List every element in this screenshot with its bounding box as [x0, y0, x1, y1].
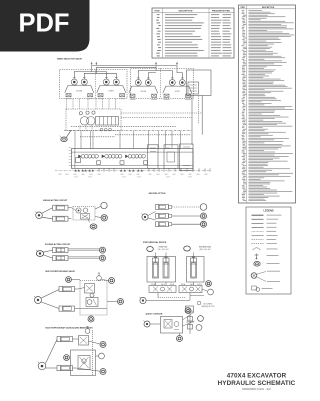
double acting port circle B — [100, 255, 106, 261]
mp1 cylinder lower — [59, 306, 75, 311]
mp2 port circle top right — [100, 342, 106, 348]
legend hose symbol — [253, 248, 260, 250]
second option supply circle — [142, 214, 148, 220]
single acting port circle B — [101, 215, 107, 221]
mp2 gauge circle right — [99, 353, 105, 359]
single acting port circle A — [101, 202, 107, 208]
quick coupler supply circle — [144, 321, 150, 327]
pilot supply bus piping — [92, 65, 177, 67]
svg-text:LEGEND: LEGEND — [264, 210, 274, 213]
main valve outlet ticks — [98, 168, 100, 172]
second option coupler 1 — [156, 205, 169, 210]
svg-text:SOL B: SOL B — [197, 284, 201, 286]
double acting circuit lines to ports — [68, 249, 100, 251]
mp2 inner valve rect — [78, 356, 90, 370]
stay solenoid manifold left — [149, 286, 176, 293]
single acting cylinder upper — [53, 205, 69, 210]
mp1 tank circle bottom — [88, 316, 94, 322]
svg-text:SINGLE ACTING CIRCUIT: SINGLE ACTING CIRCUIT — [43, 199, 68, 202]
mp2 port circle bottom right — [100, 369, 106, 375]
pilot manifold lower ticks — [79, 125, 81, 130]
pilot bus dashed upper — [71, 126, 176, 128]
main valve end cover — [180, 144, 194, 170]
parts list table rows — [242, 9, 244, 12]
dashed interconnect selector to drain — [121, 112, 202, 114]
stay cylinder group left frame — [147, 257, 176, 283]
double acting cylinder upper — [53, 248, 69, 253]
svg-text:DOUBLE ACTING CIRCUIT: DOUBLE ACTING CIRCUIT — [45, 243, 71, 246]
quick coupler valve internals — [164, 320, 172, 329]
svg-text:STICK: STICK — [175, 91, 181, 93]
stay device connecting wires — [157, 293, 159, 298]
svg-text:00000000-0 EN - 2/2: 00000000-0 EN - 2/2 — [242, 387, 271, 391]
rear stay callout bubble right — [184, 246, 191, 251]
main valve left port ticks — [69, 147, 71, 150]
second option coupler 2 — [156, 214, 169, 219]
single acting supply port circle — [36, 212, 43, 219]
pilot bus dashed lower — [115, 134, 190, 136]
stay cylinder right 1 — [191, 258, 197, 278]
single acting wires to ports — [72, 208, 76, 211]
wires from selector valves down to pilot manifold — [66, 99, 68, 109]
mp1 gauge circle top — [66, 277, 72, 283]
mp1 port circle top right — [109, 278, 115, 284]
gauge-to-bus wires right group — [138, 66, 156, 78]
mp1 port circle right — [118, 299, 124, 305]
bus junction marks — [91, 63, 93, 65]
mp2 supply wires — [46, 340, 58, 364]
svg-text:470X4 EXCAVATOR: 470X4 EXCAVATOR — [227, 373, 287, 380]
svg-text:PRESSURE SETTING: PRESSURE SETTING — [212, 10, 231, 12]
legend prime connection symbol — [256, 254, 258, 259]
svg-text:STAY REMOVAL DEVICE: STAY REMOVAL DEVICE — [143, 241, 167, 244]
second option wires — [148, 212, 156, 216]
quick coupler tank circle bottom — [177, 336, 183, 342]
pilot drain dashed pipe — [198, 96, 200, 125]
legend line samples — [252, 214, 264, 216]
PDF thumbnail badge — [0, 0, 90, 52]
bus junction bumps — [100, 128, 103, 131]
stay gauge circle right lower — [208, 289, 214, 295]
quick coupler wires — [150, 323, 161, 325]
pressure settings table column rules — [162, 8, 164, 58]
gauge-to-bus wires left group — [74, 66, 91, 78]
svg-text:SOL B: SOL B — [170, 284, 174, 286]
enclosure divider right — [159, 69, 161, 99]
mp1 supply wires — [41, 290, 59, 299]
stay solenoid manifold right — [179, 286, 202, 293]
mp2 top valve body — [79, 336, 89, 346]
stay cylinder group right frame — [187, 257, 205, 283]
parts list table column rule — [246, 5, 248, 203]
mp1 wires — [78, 288, 85, 290]
svg-text:HYDRAULIC SCHEMATIC: HYDRAULIC SCHEMATIC — [218, 380, 296, 387]
mp2 top valve gauge — [85, 329, 90, 334]
svg-text:MULTI-PURPOSE BDAY VALVE (SLID: MULTI-PURPOSE BDAY VALVE (SLIDING BEAM P… — [46, 326, 93, 329]
quick coupler port circle right 2 — [196, 325, 202, 331]
rear stay callout bubble left — [147, 247, 154, 252]
parts list table frame — [239, 5, 296, 203]
double acting supply wires — [43, 250, 52, 252]
mp2 dashed riser — [92, 330, 94, 375]
double acting supply circle — [36, 251, 43, 257]
double acting cylinder lower — [53, 256, 69, 261]
svg-text:DESCRIPTION: DESCRIPTION — [179, 10, 193, 12]
double acting port circle A — [100, 247, 106, 253]
sway selector dashed enclosure right — [131, 69, 194, 99]
main valve spool 1 — [78, 155, 81, 159]
pilot manifold spool body — [96, 117, 119, 126]
main valve relief section 2 — [164, 145, 178, 169]
return pipe from selector right — [191, 96, 193, 145]
svg-text:(LH) - 004 - 004: (LH) - 004 - 004 — [158, 249, 169, 251]
port id labels under main valve — [59, 173, 62, 176]
legend component item number symbol — [254, 262, 260, 267]
main valve spool 2 — [102, 155, 105, 159]
stay port circle right upper — [206, 281, 212, 287]
pilot valve unit A-TRIM — [71, 79, 77, 85]
single acting supply wires — [42, 208, 53, 214]
mp2 wires — [76, 338, 79, 340]
pilot bus dash-dot with junctions — [64, 129, 192, 131]
mp1 relief valve dashed box — [80, 281, 107, 316]
mp2 cylinder lower — [57, 366, 73, 371]
svg-text:SECOND OPTION: SECOND OPTION — [149, 193, 166, 195]
pilot valve unit BOOM — [135, 80, 141, 86]
main valve outlet port marks group 2 — [120, 169, 122, 171]
mp2 main body rect — [71, 350, 96, 376]
pilot manifold dashed enclosure — [66, 109, 121, 131]
single acting valve gauges — [76, 208, 81, 213]
quick coupler port circle top — [185, 308, 191, 314]
pressure settings table frame — [152, 8, 234, 58]
mp1 relief valve body — [85, 284, 95, 294]
second option port circle 3 — [201, 221, 207, 227]
svg-text:RIGHT: RIGHT — [109, 90, 114, 92]
mp2 supply circle — [38, 362, 46, 370]
mp1 check valve body — [86, 298, 98, 307]
mp1 gauge circle mid — [90, 293, 94, 297]
accumulator block right of selector — [187, 70, 212, 96]
second option coupler 3 — [156, 222, 169, 227]
svg-text:A-TRIM: A-TRIM — [76, 89, 82, 92]
pump to bus wire — [67, 130, 72, 137]
second option port circle 1 (open) — [200, 204, 207, 211]
single acting tank circle — [90, 224, 97, 229]
legend box frame — [246, 207, 291, 294]
main valve spool 3 — [125, 155, 128, 159]
main valve pilot cap box — [76, 158, 81, 163]
spool end caps — [97, 161, 101, 165]
svg-text:MULTI-PURPOSE BDAY VALVE: MULTI-PURPOSE BDAY VALVE — [46, 270, 76, 273]
sway selector dashed enclosure left — [60, 70, 128, 99]
svg-text:(RH) - 004 - 004: (RH) - 004 - 004 — [200, 249, 211, 251]
pilot manifold solenoid circles — [80, 117, 88, 125]
quick coupler port circle right 1 — [198, 316, 204, 322]
main valve outlet port marks group 1 — [75, 169, 77, 171]
stay check valve to control valve — [186, 306, 194, 312]
pilot valve unit LEFT-RIGHT — [103, 79, 109, 85]
mp2 gauge circle left — [64, 355, 70, 361]
accumulator inner valve — [188, 82, 199, 94]
svg-text:QUICK COUPLER: QUICK COUPLER — [146, 314, 163, 316]
mp1 cylinder upper — [59, 287, 75, 292]
accumulator outlet pipe — [201, 96, 203, 135]
single acting cylinder lower — [53, 216, 69, 221]
svg-text:SWAY SELECTOR VALVE: SWAY SELECTOR VALVE — [57, 57, 83, 60]
legend optional piping symbol — [252, 286, 257, 290]
pressure settings table rows — [157, 13, 160, 16]
enclosure divider left — [94, 70, 96, 99]
stay cylinder to manifold wires — [155, 282, 157, 286]
mp2 cylinder upper — [57, 337, 73, 342]
svg-text:BOOM: BOOM — [141, 91, 147, 93]
stay supply circle left — [140, 297, 146, 303]
quick coupler valve box — [161, 317, 183, 334]
pump ellipse at main valve inlet — [61, 137, 67, 142]
main control valve body — [71, 149, 193, 169]
stay cylinder left 2 — [163, 258, 169, 278]
single acting valve dashed box — [73, 207, 95, 221]
svg-text:ITEM: ITEM — [155, 10, 160, 12]
main valve relief section 1 — [148, 145, 159, 169]
legend component number callout symbol — [251, 273, 257, 279]
stay riser to quick coupler — [189, 312, 191, 334]
second option port circle 2 — [201, 213, 207, 219]
stay cylinder left 1 — [153, 258, 159, 278]
pilot valve unit STICK — [169, 80, 175, 86]
main valve body inner lines — [71, 151, 193, 153]
main valve riser wires — [74, 131, 76, 149]
mp1 supply circle — [35, 297, 42, 304]
tank return dash-dot line below valve — [55, 170, 211, 172]
svg-text:PDF: PDF — [19, 10, 70, 38]
